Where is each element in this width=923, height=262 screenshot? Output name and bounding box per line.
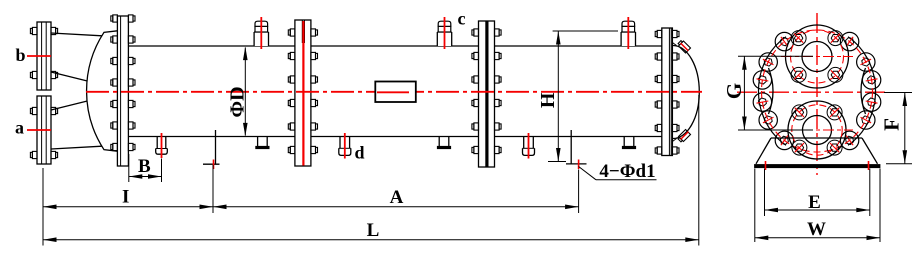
ext line right head (L)	[698, 95, 700, 246]
label b	[15, 45, 25, 65]
svg-text:ΦD: ΦD	[227, 86, 249, 117]
centerline through nameplate	[377, 91, 409, 93]
dim I line	[43, 205, 213, 210]
dim H extension top	[553, 30, 618, 32]
svg-text:E: E	[808, 192, 821, 213]
cover plate outline right	[848, 37, 876, 146]
top nozzle 3	[621, 21, 635, 46]
dim A label	[390, 187, 404, 208]
bottom pad stub 3	[622, 137, 635, 149]
nozzle b face (end view) bolt marks	[794, 34, 840, 80]
nozzle a face (end view) bore	[803, 116, 832, 145]
dim W ext lines	[755, 169, 880, 243]
nozzle d centerline	[344, 133, 346, 159]
left anchor bolt mark	[213, 160, 215, 170]
top nozzle c	[437, 21, 451, 46]
support pedestal	[756, 138, 878, 164]
top nozzle 1 centerline	[260, 17, 262, 49]
dim G label	[722, 83, 746, 99]
dim PhiD line	[243, 47, 248, 137]
rear head stud bottom	[677, 129, 691, 143]
dim H line	[556, 31, 561, 162]
cover bolts (hex)	[758, 38, 875, 145]
cover plate outline left	[758, 37, 786, 146]
right anchor bolt mark	[578, 160, 580, 170]
svg-text:G: G	[722, 83, 746, 99]
shell body	[128, 46, 661, 137]
bottom pad stub 1	[256, 137, 269, 149]
dim W label	[807, 219, 826, 240]
end view vertical centerline	[816, 13, 818, 175]
flange pair F3 with tubesheet	[472, 21, 501, 167]
node b centerline	[27, 55, 51, 57]
dim E line	[765, 208, 870, 213]
nozzle a face (end view) bolt marks	[795, 108, 839, 152]
nozzle b cone	[51, 33, 102, 81]
nozzle b face (end view) bolt circle	[791, 30, 844, 83]
ext line left (L/I)	[42, 168, 44, 246]
top nozzle 3 centerline	[627, 17, 629, 49]
base anchor marks	[766, 161, 869, 170]
channel waist arc left	[769, 68, 774, 114]
nozzle b flange	[30, 22, 57, 90]
end view horizontal centerline	[737, 91, 886, 93]
svg-text:F: F	[880, 118, 904, 131]
svg-text:H: H	[537, 92, 559, 108]
svg-text:L: L	[367, 220, 380, 241]
dim H extension bottom	[548, 161, 566, 163]
nozzle b face (end view) bore	[802, 42, 832, 72]
bottom nozzle d	[339, 137, 351, 156]
dim B label	[138, 156, 151, 177]
nozzle a face (end view) bolts (hex)	[795, 109, 839, 151]
label a	[15, 118, 24, 138]
channel waist arc right	[861, 68, 866, 114]
nozzle b face (end view) bolt spot faces	[791, 31, 843, 83]
svg-text:I: I	[122, 186, 129, 207]
nozzle b face (end view) centerline	[781, 56, 853, 58]
nozzle b face (end view) flange circle	[786, 25, 849, 88]
flange pair F2	[288, 20, 317, 166]
nameplate	[375, 82, 416, 103]
nozzle a flange	[30, 96, 57, 164]
cover bolt marks	[757, 37, 878, 145]
callout 4-Phi-d1 leader	[579, 167, 657, 180]
bottom nozzle 3 centerline	[528, 133, 530, 159]
tubesheet red line F2	[302, 21, 304, 166]
dim W line	[755, 236, 880, 241]
dim L line	[43, 237, 699, 242]
svg-text:W: W	[807, 219, 826, 240]
svg-text:d: d	[354, 143, 364, 163]
cover bolt circle (ellipse)	[762, 30, 873, 152]
svg-text:A: A	[390, 187, 404, 208]
rear head	[672, 43, 699, 142]
dim H label	[537, 92, 559, 108]
bottom pad stub 2	[437, 137, 450, 149]
svg-text:a: a	[15, 118, 24, 138]
left channel head	[87, 31, 118, 151]
drain nozzle near F1	[156, 137, 168, 155]
nozzle a face (end view) bolt spot faces	[792, 105, 842, 155]
dim B line	[129, 174, 162, 179]
dim F label	[880, 118, 904, 131]
label c	[458, 9, 466, 29]
left saddle support	[203, 130, 220, 164]
dim G ext lines	[738, 56, 813, 130]
cover bolt lobes	[753, 32, 881, 149]
nozzle a face (end view) flange circle	[788, 101, 846, 159]
right saddle support	[566, 130, 587, 164]
dim E ext lines	[765, 169, 870, 217]
dim A line	[213, 205, 579, 210]
dim B ext lines	[129, 154, 162, 182]
callout 4-Phi-d1 label	[599, 161, 655, 182]
dim L label	[367, 220, 380, 241]
rear flange F4	[655, 28, 679, 156]
svg-text:b: b	[15, 45, 25, 65]
dim F line	[903, 93, 908, 164]
dim I label	[122, 186, 129, 207]
svg-text:c: c	[458, 9, 466, 29]
svg-text:B: B	[138, 156, 151, 177]
ext line left support	[212, 165, 214, 213]
drain nozzle centerline	[161, 133, 163, 158]
nozzle a cone	[51, 101, 102, 149]
top nozzle c centerline	[444, 17, 446, 49]
svg-text:4−Φd1: 4−Φd1	[599, 161, 655, 182]
dim PhiD label	[227, 86, 249, 117]
node a centerline	[27, 129, 51, 131]
ext line right support	[578, 170, 580, 214]
dim E label	[808, 192, 821, 213]
nozzle a face (end view) bolt circle	[792, 105, 842, 155]
shell flange F1 (channel to shell)	[111, 15, 135, 166]
nozzle b face (end view) bolts (hex)	[794, 35, 839, 79]
dim F ext lines	[884, 93, 912, 164]
top nozzle 1	[254, 21, 268, 46]
dim G line	[742, 56, 747, 130]
centerline (side view)	[86, 91, 702, 93]
support base plate	[755, 165, 881, 168]
label d	[354, 143, 364, 163]
rear head stud top	[677, 40, 691, 54]
nozzle a face (end view) centerline	[781, 129, 853, 131]
bottom nozzle 3	[523, 137, 535, 156]
